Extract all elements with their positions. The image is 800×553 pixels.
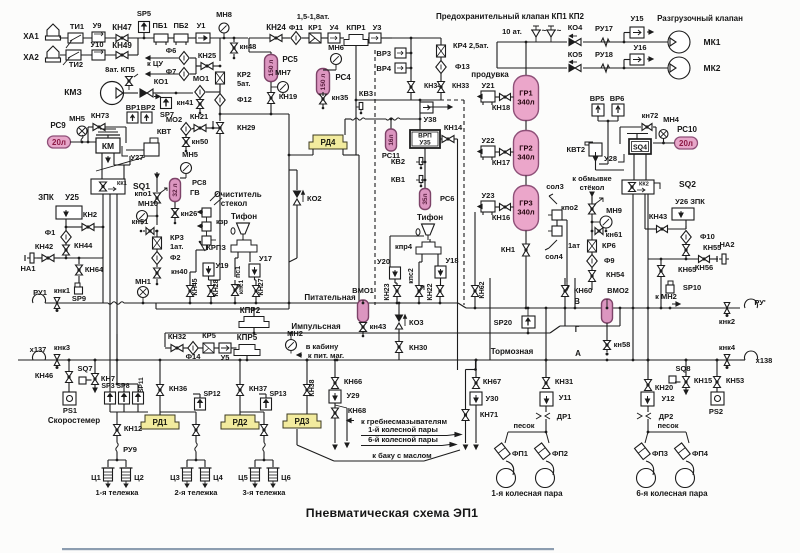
svg-text:КН60: КН60 [574,286,592,295]
valve KN2 [82,224,88,231]
svg-text:У4: У4 [330,23,340,32]
svg-text:PS1: PS1 [63,406,77,415]
svg-text:У10: У10 [90,40,103,49]
svg-text:кн72: кн72 [642,111,659,120]
svg-text:КН53: КН53 [726,376,744,385]
main reservoir GR1 [514,76,539,121]
svg-text:6-й колесной пары: 6-й колесной пары [368,435,438,444]
wire tifon col [242,239,244,240]
rupture RU17 [598,38,612,46]
svg-text:КН31: КН31 [555,377,573,386]
reservoir RS8 32l [170,179,181,202]
svg-text:МК2: МК2 [704,63,721,73]
speed sensor PS1 [63,392,76,405]
pressure switch SP20 [522,316,535,328]
wire GR2-GR3 [525,176,527,187]
sensor VR4 [395,63,406,73]
svg-text:3-я тележка: 3-я тележка [243,488,287,497]
wire PB row [168,37,174,39]
svg-text:Ф9: Ф9 [604,256,615,265]
sand nozzle ФП2 [535,443,551,460]
valve KPR1 [344,35,368,46]
svg-text:КН54: КН54 [606,270,625,279]
valve KN44 [63,245,70,250]
bus Impulsnaya wire [165,332,550,334]
svg-text:35л: 35л [422,193,429,204]
valve U12 [641,392,654,406]
hook x137 [32,351,45,360]
svg-text:КН28: КН28 [213,279,220,296]
svg-text:ВМО2: ВМО2 [607,286,629,295]
svg-text:МН2: МН2 [287,329,303,338]
svg-text:кн48: кн48 [240,42,257,51]
brake cylinder C5 [251,468,260,481]
valve KN47 [116,35,122,42]
wire GR1-GR2 [525,121,527,132]
svg-text:МК1: МК1 [704,37,721,47]
valve U19 [203,263,214,276]
filter F1 [61,231,71,244]
bus Pitatelnaya wire [45,302,108,304]
main reservoir GR3 [514,186,539,231]
svg-text:КН1: КН1 [501,245,515,254]
valve KN33 [438,82,445,88]
sensor VR2 [141,112,152,123]
svg-text:КН21: КН21 [190,112,208,121]
motor compressor MK1 [668,31,690,53]
svg-text:в кабину: в кабину [306,342,339,351]
valve KN22 [437,286,444,292]
svg-text:КО5: КО5 [568,50,583,59]
valve kn43 small [360,323,367,328]
sensor KVT2 [589,143,602,156]
check valve KO3 [396,315,403,321]
svg-text:КН17: КН17 [492,158,510,167]
sol3 wire [549,196,557,204]
svg-text:КН20: КН20 [655,383,673,392]
gauge MN9 [600,216,612,228]
wire NA1 row [60,257,103,259]
reservoir RS9 20l [48,136,71,148]
svg-text:РС9: РС9 [50,121,66,130]
svg-text:Ф14: Ф14 [186,352,202,361]
svg-text:КН66: КН66 [344,377,362,386]
valve KN24 [270,35,276,42]
reducer KR4 [437,45,446,57]
svg-text:У25: У25 [65,193,79,202]
bus Tormoznaya wire [18,359,745,361]
wire y259 row [648,258,698,260]
valve kpo1 [154,193,161,198]
svg-text:Ц3: Ц3 [170,473,180,482]
cylinder bracket 2 [195,452,197,461]
reservoir RS6 35l [420,189,431,210]
svg-text:У28: У28 [604,154,617,163]
svg-text:кнк4: кнк4 [719,343,736,352]
svg-text:МН9: МН9 [606,206,622,215]
svg-text:У17: У17 [259,254,272,263]
svg-text:Разгрузочный клапан: Разгрузочный клапан [657,14,743,23]
sensor KVT [144,143,159,156]
svg-text:пс1: пс1 [235,266,242,278]
svg-text:SP11: SP11 [138,377,145,393]
pressure switch SP13 [261,398,272,410]
valve kn50 [183,138,190,143]
svg-text:РД4: РД4 [321,138,337,147]
wire U12 to sand [647,406,649,412]
valve U26 ZPK [672,208,694,220]
svg-text:1ат: 1ат [568,241,580,250]
svg-text:У19: У19 [215,261,228,270]
svg-text:Ф10: Ф10 [700,232,715,241]
svg-text:У1: У1 [197,21,206,30]
svg-text:КПР1: КПР1 [346,23,365,32]
valve U15 [630,27,644,38]
wheel 2 [676,469,695,488]
valve KN43 [657,226,663,233]
svg-text:КН27: КН27 [258,278,265,295]
svg-text:SQ8: SQ8 [675,364,690,373]
svg-text:КН45: КН45 [192,278,199,295]
svg-text:КН64: КН64 [85,265,104,274]
svg-text:Питательная: Питательная [304,293,356,302]
valve kn72 [642,124,647,131]
valve KN16 [500,204,506,211]
wire x633 bus cross [68,359,71,362]
brake cylinder C2 [122,468,131,481]
svg-text:КН32: КН32 [168,332,186,341]
svg-text:У20: У20 [377,257,390,266]
svg-text:продувка: продувка [471,70,509,79]
svg-text:песок: песок [657,421,678,430]
svg-text:РС8: РС8 [192,178,206,187]
svg-text:КВ1: КВ1 [391,175,405,184]
filter F11 [291,32,301,45]
svg-text:КО4: КО4 [568,23,583,32]
svg-text:У30: У30 [485,394,498,403]
sensor VR1 [127,112,138,123]
svg-text:РУ18: РУ18 [595,50,613,59]
bracket KRP3 [231,240,257,252]
reservoir RS5 150l [265,55,278,82]
svg-text:ДР1: ДР1 [557,412,572,421]
valve kn40 [154,268,161,273]
reservoir RS11 16l [386,129,397,151]
gauge MN4 [659,130,668,139]
svg-text:КМ: КМ [102,141,114,151]
svg-text:КР5: КР5 [202,331,216,340]
sol valve 1 [552,210,562,220]
svg-text:КН14: КН14 [444,123,463,132]
svg-text:РД2: РД2 [233,418,249,427]
valve KN71 [462,410,469,416]
sand nozzle ФП1 [495,443,511,460]
valve KN54 [589,271,596,277]
valve KN56 [699,256,705,263]
svg-text:КК1: КК1 [117,181,127,187]
svg-text:SP9: SP9 [72,294,86,303]
wires SP to RD1 [109,404,111,412]
svg-text:МН8: МН8 [216,10,232,19]
valve KN25 [201,63,207,70]
svg-text:Ф6: Ф6 [166,46,177,55]
svg-text:кпо1: кпо1 [134,189,151,198]
svg-text:КВТ: КВТ [157,127,172,136]
transducer TI1 [68,33,83,43]
wire top col x220 [219,38,221,61]
hose to RS11 [351,118,365,120]
horn XA1 [47,24,59,36]
valve KN20 [645,380,652,386]
wiper valve 3 [202,236,211,245]
svg-text:песок: песок [513,421,534,430]
svg-text:ВМО1: ВМО1 [352,286,374,295]
valve U17 [249,264,260,277]
svg-text:Ц1: Ц1 [91,473,101,482]
sensor KV2 [419,158,423,165]
valve knk1 [54,298,60,304]
gauge MN5 mid [181,163,192,174]
svg-text:к обмывке: к обмывке [572,174,611,183]
svg-text:ВР4: ВР4 [376,64,391,73]
svg-text:Скоростемер: Скоростемер [48,416,100,425]
svg-text:ТИ1: ТИ1 [70,22,84,31]
svg-text:КН56: КН56 [695,263,713,272]
svg-text:КВТ2: КВТ2 [567,145,585,154]
transducer U10 [92,50,105,60]
svg-text:КН71: КН71 [480,410,498,419]
valve KN62 [472,286,479,292]
svg-text:ПБ1: ПБ1 [153,21,168,30]
svg-text:КН25: КН25 [198,51,216,60]
hose t2 [195,443,197,452]
air distributor VRP U35 [410,130,440,148]
svg-text:Тифон: Тифон [231,212,257,221]
svg-text:кпо2: кпо2 [561,203,578,212]
svg-text:ФП1: ФП1 [512,449,528,458]
svg-text:У23: У23 [481,191,494,200]
valve kn58 [604,341,611,346]
valve U16 [630,54,644,65]
svg-text:20л: 20л [679,139,693,148]
svg-text:КО3: КО3 [409,318,424,327]
svg-text:SP20: SP20 [494,318,512,327]
svg-text:Ф2: Ф2 [170,253,181,262]
svg-text:SP3: SP3 [101,383,114,390]
svg-text:КН67: КН67 [483,377,501,386]
svg-text:Тифон: Тифон [417,213,443,222]
svg-text:КВ3: КВ3 [359,89,373,98]
svg-text:КН29: КН29 [237,123,255,132]
svg-text:КК2: КК2 [639,182,649,188]
svg-text:Ф1: Ф1 [45,228,56,237]
reservoir RS4 150l [317,69,330,96]
valve KPR5 [234,345,260,356]
valve KN1 [523,244,530,250]
valve kn61 [595,228,599,235]
sol4 wire [549,240,557,248]
wiper valve 2 [202,222,211,231]
svg-text:У5: У5 [221,353,230,362]
reservoir VMO2 [602,299,613,323]
svg-text:МН5: МН5 [182,150,198,159]
muffler PB2 [174,34,188,42]
svg-text:ВР3: ВР3 [376,49,391,58]
svg-text:У12: У12 [661,394,674,403]
svg-text:КН18: КН18 [492,103,510,112]
valve U38 [420,102,433,113]
valve t3 [261,425,268,431]
svg-text:РУ9: РУ9 [123,445,137,454]
valve KN53 [714,377,721,383]
svg-text:КН49: КН49 [112,41,132,50]
safety valve KP2 [547,30,555,37]
check valve KO5 [569,65,575,72]
valve U3 [369,33,381,43]
svg-text:~: ~ [557,26,562,35]
svg-text:ПБ2: ПБ2 [174,21,189,30]
svg-text:кпс1: кпс1 [238,279,245,294]
reservoir RS10 20l [675,137,698,149]
hook x138 [745,351,758,360]
valve U5 [219,343,231,353]
svg-text:КН62: КН62 [479,281,486,298]
wire GR3 down [525,231,527,245]
svg-text:ГВ: ГВ [190,188,200,197]
valve SQ8 [669,376,676,383]
pressure switch SP12 [195,398,206,410]
svg-text:1-я тележка: 1-я тележка [96,488,140,497]
svg-text:SQ2: SQ2 [679,179,696,189]
svg-text:PS2: PS2 [709,407,723,416]
svg-text:КН16: КН16 [492,213,510,222]
hose RU9 [116,443,118,452]
gauge MN10 [137,211,148,222]
pressure switch SP11 [133,392,144,404]
brake cylinder C6 [269,468,278,481]
muffler PB1 [154,34,168,42]
gauge MN7 [278,82,289,93]
bottom scan line [62,548,554,550]
svg-text:150 л: 150 л [320,74,327,91]
bracket U28 [618,154,624,162]
wire x458 col [457,360,459,370]
svg-text:НА2: НА2 [719,240,734,249]
wire U11 to sand [545,406,547,412]
svg-text:к ЦУ: к ЦУ [147,59,163,68]
horn XA2 [47,46,59,58]
wire KO4 row [497,41,567,43]
dashed line right [463,100,465,305]
regulator RD3 [283,414,321,428]
valve KN32 [171,345,177,352]
svg-text:Ц6: Ц6 [281,473,291,482]
svg-text:РУ17: РУ17 [595,24,613,33]
speed sensor PS2 [711,392,724,405]
svg-text:Тормозная: Тормозная [491,347,534,356]
svg-text:МН6: МН6 [328,43,344,52]
wire left col x103 [102,227,104,258]
hose t3 [263,443,265,452]
svg-text:У18: У18 [445,256,458,265]
wire G bracket [564,308,566,326]
filter F7 [179,68,189,81]
svg-text:А: А [575,349,581,358]
check valve KO1 [124,92,139,94]
svg-text:SP12: SP12 [203,391,220,398]
gauge MN1 [138,287,149,298]
valve KN14 [442,136,448,143]
wire KN49 up to row [128,54,138,56]
svg-text:РС4: РС4 [335,73,351,82]
svg-text:SP13: SP13 [269,391,286,398]
svg-text:КН42: КН42 [35,242,53,251]
pressure switch SP5 [139,22,150,33]
sand nozzle ФП3 [635,443,651,460]
svg-text:20л: 20л [52,138,66,147]
valve KN36 [157,385,164,391]
svg-text:1-й колесной пары: 1-й колесной пары [368,425,438,434]
safety valve KP5 symbol [126,77,133,82]
svg-text:КН23: КН23 [384,283,391,300]
wires KK2 down [632,194,634,361]
valve KN12 [114,425,121,431]
throttle DR2 [637,413,642,419]
valve KN21 [194,125,200,132]
svg-text:КРПЗ: КРПЗ [206,243,226,252]
valve KN60 [562,286,569,292]
svg-text:2-я тележка: 2-я тележка [175,488,219,497]
valve kpo2 [589,204,596,209]
valve knk3 [54,355,60,361]
valve KPR2 [239,317,269,328]
valve KN46 [66,372,73,378]
svg-text:ФП3: ФП3 [652,449,668,458]
valve KN37 [237,385,244,391]
svg-text:к пит. маг.: к пит. маг. [308,351,344,360]
svg-text:ХА2: ХА2 [23,53,39,62]
filter F10 [681,231,691,244]
wire XA2 row [60,54,116,56]
svg-text:МН10: МН10 [138,199,158,208]
valve kps2 [416,286,423,292]
svg-text:Ф12: Ф12 [237,95,252,104]
pressure regulator RD4 [309,135,347,149]
svg-text:кн50: кн50 [192,137,209,146]
svg-text:КН65: КН65 [678,265,696,274]
svg-text:SP10: SP10 [683,283,701,292]
svg-text:РС10: РС10 [677,125,697,134]
svg-text:Ф11: Ф11 [289,23,303,32]
svg-text:кпр4: кпр4 [395,242,413,251]
svg-text:РС6: РС6 [440,194,454,203]
svg-text:У21: У21 [481,81,494,90]
valve kn35 [320,94,327,99]
sand line split [508,431,546,433]
regulator RD2 [221,415,259,429]
svg-text:КН30: КН30 [409,343,427,352]
wiper valve kzr [202,208,211,217]
wire U1-MN8 area [210,37,248,39]
svg-text:КН15: КН15 [694,376,712,385]
svg-text:КР3: КР3 [170,233,184,242]
svg-text:У11: У11 [559,393,572,402]
dashed stub U38 [440,99,464,101]
svg-text:У16: У16 [633,43,646,52]
cylinder bracket 1 [116,452,118,461]
svg-text:КВ2: КВ2 [391,157,405,166]
svg-text:ЗПК: ЗПК [38,193,54,202]
